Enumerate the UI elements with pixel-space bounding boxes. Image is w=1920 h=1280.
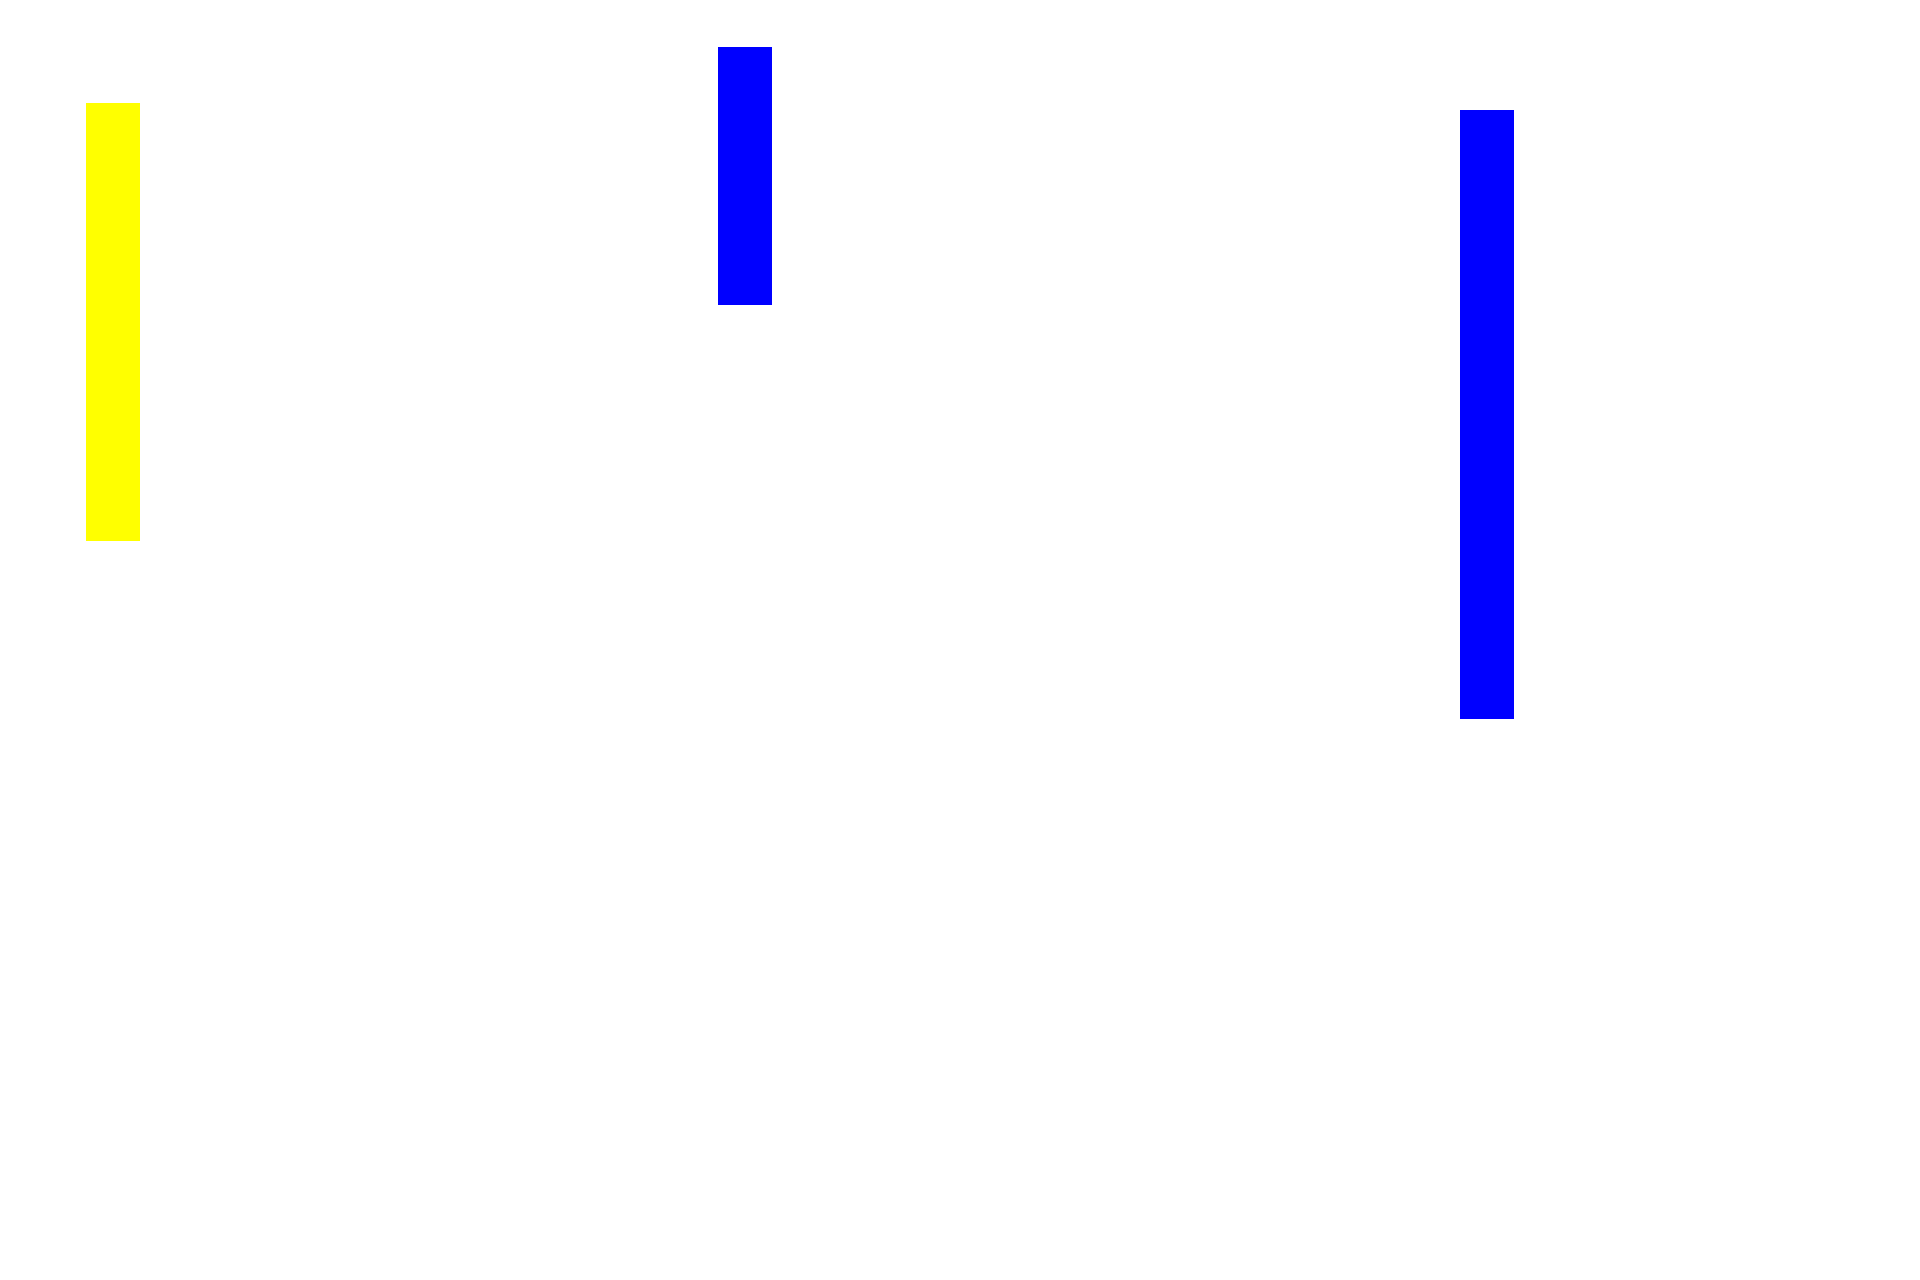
blue bar (right) [1460,110,1514,719]
yellow bar (left) [86,103,140,541]
blue bar (top center) [718,47,772,305]
